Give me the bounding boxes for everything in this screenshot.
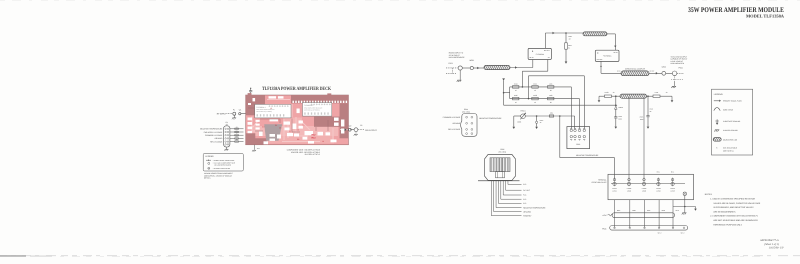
plate bus line <box>611 182 685 184</box>
svg-text:+VDC: +VDC <box>602 214 607 217</box>
svg-text:N.C.: N.C. <box>523 194 527 197</box>
svg-text:N.C.: N.C. <box>523 183 527 186</box>
R508 ground end <box>598 96 600 100</box>
resistor R504 <box>513 86 519 89</box>
hybrid U1 markings <box>256 106 288 117</box>
svg-text:P502: P502 <box>679 67 683 70</box>
PCB light traces <box>252 100 333 142</box>
wire U501 out up and right <box>544 33 546 48</box>
svg-text:RT501: RT501 <box>520 109 525 112</box>
output note <box>671 55 688 65</box>
hybrid module U2 outline <box>303 103 332 117</box>
feedthru capacitor C1504/L1504 <box>657 178 660 181</box>
svg-text:P2: P2 <box>360 124 362 127</box>
svg-text:DC OUT: DC OUT <box>523 189 531 192</box>
svg-text:C9: C9 <box>297 129 299 132</box>
feedthru capacitor C1501/L1501 <box>613 178 616 181</box>
svg-text:*TLF0931A: *TLF0931A <box>603 55 612 58</box>
deck input chassis ground <box>233 115 235 117</box>
capacitor C512 <box>536 116 538 121</box>
wire U502 out down to coupler <box>600 61 602 73</box>
svg-text:DIRECTIONAL COUPLER: DIRECTIONAL COUPLER <box>625 67 646 70</box>
wire strip to U502 <box>607 33 615 35</box>
svg-text:P1: P1 <box>233 109 235 112</box>
svg-text:NEGATIVE TEMPERATURE: NEGATIVE TEMPERATURE <box>576 154 599 157</box>
svg-text:W502: W502 <box>662 66 666 69</box>
svg-text:BL-DEPS-47787-O: BL-DEPS-47787-O <box>305 153 321 156</box>
svg-text:REFERENCE PURPOSE ONLY.: REFERENCE PURPOSE ONLY. <box>713 223 742 226</box>
deck input connector P1 <box>227 113 233 115</box>
wire R508 to strip <box>612 95 621 97</box>
RT501 wire into P503 <box>574 116 576 128</box>
PCB dark copper region below U2 <box>314 117 340 127</box>
plate output wires <box>615 200 674 228</box>
capacitor C514 <box>615 109 617 116</box>
bypass capacitor C1 on board top <box>250 92 252 95</box>
scan noise top edge <box>0 0 800 2</box>
svg-text:IN PICOFARADS, AND INDUCTOR VA: IN PICOFARADS, AND INDUCTOR VALUES <box>713 206 754 209</box>
scan noise bottom edge <box>0 255 800 258</box>
svg-text:L4: L4 <box>322 140 324 143</box>
P505 fanout wires <box>491 181 521 216</box>
svg-text:FWD APPLD VOLTAGE: FWD APPLD VOLTAGE <box>204 131 223 134</box>
svg-text:2. COMPONENTS MARKED WITH AN A: 2. COMPONENTS MARKED WITH AN ASTERISK (*… <box>710 215 758 218</box>
svg-text:NEGATIVE TEMPERATURE: NEGATIVE TEMPERATURE <box>479 117 502 120</box>
svg-text:FEEDTHRU PLATE: FEEDTHRU PLATE <box>592 181 608 184</box>
svg-text:W1: W1 <box>239 109 242 112</box>
DC feed rail arrow <box>502 78 505 80</box>
microstrip line Z502 <box>583 32 607 36</box>
svg-text:NOTES:: NOTES: <box>705 193 713 196</box>
notes block <box>705 193 761 226</box>
svg-text:(Sheet 1 of 1): (Sheet 1 of 1) <box>764 243 779 246</box>
connector P505 body <box>485 155 516 181</box>
deck legend note below <box>204 172 233 179</box>
PCB deck board outline <box>246 95 349 145</box>
svg-text:L2: L2 <box>236 133 238 135</box>
wire coupler to W502 <box>649 72 662 74</box>
deck connector J1 pins <box>225 128 229 145</box>
svg-text:R1: R1 <box>275 124 277 127</box>
hybrid module U1 outline <box>255 104 291 118</box>
PCB inner trace lines dark <box>248 108 328 132</box>
svg-text:FORWARD VOLTAGE: FORWARD VOLTAGE <box>205 134 223 137</box>
legend chassis ground <box>714 130 719 132</box>
DC feed rail <box>503 80 505 105</box>
resistor R506 <box>513 97 519 100</box>
legend wire strap <box>714 108 720 111</box>
deck legend box <box>203 154 243 172</box>
U501 markings <box>530 49 550 59</box>
thermistor RT501 <box>521 114 526 119</box>
PCB light mottled band <box>252 126 338 136</box>
legend box <box>712 89 753 155</box>
svg-text:NEGATIVE TEMPERATURE: NEGATIVE TEMPERATURE <box>523 206 546 209</box>
C515 substrate ground <box>647 127 650 129</box>
diode CR501 <box>615 96 617 104</box>
U502 bias wire <box>529 75 585 77</box>
bias row 2 wire <box>510 98 580 100</box>
svg-text:U1: U1 <box>270 107 272 110</box>
svg-text:GROUND: GROUND <box>523 210 532 213</box>
svg-text:W2: W2 <box>349 125 352 128</box>
svg-text:L3: L3 <box>236 139 238 141</box>
svg-text:C4: C4 <box>236 136 238 138</box>
svg-text:LEGEND:: LEGEND: <box>714 93 724 96</box>
inductor L505 <box>548 86 554 89</box>
deck output connector W2/P2 <box>350 129 354 131</box>
C514 substrate ground <box>615 127 618 129</box>
resistor R507 <box>565 43 568 49</box>
PCB dark copper block right <box>340 103 349 138</box>
PCB white pads/traces <box>248 96 345 144</box>
feedthru capacitor C1502/L1502 <box>628 178 631 181</box>
R511 ground end <box>660 95 672 97</box>
PCB top strip via ticks <box>293 101 348 103</box>
U502 markings <box>597 51 618 61</box>
resistor R511 <box>653 95 660 97</box>
svg-text:P501: P501 <box>449 62 453 65</box>
svg-text:HIGH IMPEDANCE: HIGH IMPEDANCE <box>449 56 465 59</box>
wire W501 to strip <box>473 67 484 69</box>
terminal feedthru plate <box>608 174 694 199</box>
PCB red component designators <box>262 107 324 143</box>
deck board id notes <box>287 148 321 156</box>
strip taps to feedthru plate <box>628 97 630 179</box>
P501 chassis ground <box>459 70 461 80</box>
deck connector labels <box>200 128 223 144</box>
microstrip line Z504 <box>620 94 647 98</box>
legend primary signal flow <box>714 100 719 102</box>
svg-text:GROUND: GROUND <box>452 122 461 125</box>
svg-text:W501: W501 <box>469 59 474 62</box>
svg-text:68P81096C77-A: 68P81096C77-A <box>760 239 778 242</box>
connector P505 key notch <box>496 172 505 178</box>
svg-text:N.C.: N.C. <box>523 198 527 201</box>
plate ground stud <box>683 192 686 195</box>
connector P505 base line <box>478 180 520 182</box>
inductor L511 <box>549 115 553 117</box>
svg-text:L1: L1 <box>236 126 238 128</box>
svg-text:C7: C7 <box>289 130 291 133</box>
wire strip to U501 <box>510 67 533 69</box>
RT501 ground leg <box>514 115 521 117</box>
microstrip line Z501 <box>484 65 510 69</box>
deck legend content <box>205 155 234 170</box>
connector P504 body <box>461 114 477 137</box>
svg-text:REV VOLTAGE: REV VOLTAGE <box>448 128 461 131</box>
bus 2 pin marks <box>614 227 685 229</box>
resistor R509 <box>532 97 538 100</box>
P504 labels <box>443 116 503 131</box>
svg-text:TLF1358A POWER AMPLIFIER DECK: TLF1358A POWER AMPLIFIER DECK <box>262 86 331 92</box>
deck connector chassis ground <box>226 147 228 149</box>
svg-text:ARE NOT ADJUSTABLE AND ARE SHO: ARE NOT ADJUSTABLE AND ARE SHOWN FOR <box>713 219 758 222</box>
connector P504 pins <box>466 116 473 134</box>
svg-text:10/15/98- UP: 10/15/98- UP <box>769 247 784 250</box>
svg-text:1. UNLESS OTHERWISE SPECIFIED: 1. UNLESS OTHERWISE SPECIFIED RESISTOR <box>710 198 755 201</box>
svg-text:RF IN: RF IN <box>617 70 620 72</box>
svg-text:RF OUT: RF OUT <box>650 70 655 72</box>
svg-text:P506: P506 <box>602 228 606 231</box>
bias row 1 wire <box>510 86 572 88</box>
resistor R508 <box>605 95 612 97</box>
U501 bias pin drop <box>547 60 549 72</box>
svg-text:FORWARD VOLTAGE: FORWARD VOLTAGE <box>443 116 461 119</box>
R507 substrate ground <box>565 49 567 61</box>
deck output chassis ground <box>355 132 357 134</box>
wire strip right end <box>647 95 654 97</box>
P503 pins row 1 <box>570 128 586 132</box>
svg-text:N.C.: N.C. <box>523 202 527 205</box>
svg-text:P504: P504 <box>464 108 468 111</box>
RT501 output wire <box>525 115 574 117</box>
svg-text:RF OUTPUT: RF OUTPUT <box>365 129 377 132</box>
connector P505 contact field <box>490 158 510 172</box>
stud substrate ground <box>695 207 697 209</box>
PCB dark copper corner bottom-left <box>246 133 267 145</box>
svg-text:P503: P503 <box>576 143 580 146</box>
deck RF output arrow <box>340 129 348 131</box>
svg-text:HIGH MISMATCH: HIGH MISMATCH <box>671 62 685 65</box>
PCB dark copper region top-left <box>246 93 265 115</box>
svg-text:C2: C2 <box>236 130 238 132</box>
feedthru capacitor C1503/L1503 <box>643 178 646 181</box>
inductor L506 <box>548 97 554 100</box>
P505 wire labels <box>523 183 546 217</box>
svg-text:VALUES ARE IN OHMS, CAPACITOR: VALUES ARE IN OHMS, CAPACITOR VALUES ARE <box>713 202 761 205</box>
svg-text:NEGATIVE TEMPERATURE: NEGATIVE TEMPERATURE <box>200 128 223 131</box>
rail stub to rows <box>504 92 510 94</box>
hybrid amplifier U501 <box>528 48 551 59</box>
svg-text:LEGEND: LEGEND <box>205 155 214 158</box>
schematic input note <box>449 52 465 59</box>
P503 pins row 2 <box>570 135 586 140</box>
C512 substrate ground <box>535 127 538 129</box>
stud chassis ground <box>684 207 686 213</box>
wire color labels <box>617 209 679 212</box>
svg-text:MODEL TLF1358A: MODEL TLF1358A <box>746 14 785 19</box>
deck test point TP1 <box>254 145 256 150</box>
PCB gray solder patch <box>264 124 282 141</box>
deck connector wires to board <box>230 126 244 142</box>
resistor R505 <box>532 86 538 89</box>
svg-text:TLF0930A 1: TLF0930A 1 <box>256 106 265 109</box>
document number <box>760 239 783 250</box>
P502 chassis ground <box>674 76 676 82</box>
svg-text:REV VOLTAGE: REV VOLTAGE <box>210 140 223 143</box>
svg-text:GROUND: GROUND <box>215 137 224 140</box>
svg-text:R9: R9 <box>297 138 299 141</box>
deck connector J1 body <box>224 126 230 147</box>
hybrid amplifier U502 <box>595 50 619 61</box>
capacitor C515 <box>646 116 649 117</box>
ground stud wire <box>684 195 686 206</box>
feedthru capacitor C1505/L1505 <box>671 178 674 181</box>
svg-text:P505: P505 <box>500 148 504 151</box>
svg-text:*TLF0930A: *TLF0930A <box>536 53 545 56</box>
svg-text:RF INPUT: RF INPUT <box>217 113 227 116</box>
svg-text:ARE IN NANOHENRIES.: ARE IN NANOHENRIES. <box>713 210 736 213</box>
svg-text:P4: P4 <box>226 121 228 124</box>
svg-text:C3: C3 <box>262 126 264 129</box>
connector P503 body <box>567 127 590 149</box>
svg-text:C5: C5 <box>279 126 281 129</box>
hybrid U2 markings <box>304 104 330 115</box>
legend microstrip line <box>713 138 721 142</box>
svg-text:FWD/REV: FWD/REV <box>523 214 532 217</box>
legend substrate ground <box>715 120 718 122</box>
negative temperature line <box>559 116 561 158</box>
PCB dark copper strip top-right <box>291 95 349 103</box>
